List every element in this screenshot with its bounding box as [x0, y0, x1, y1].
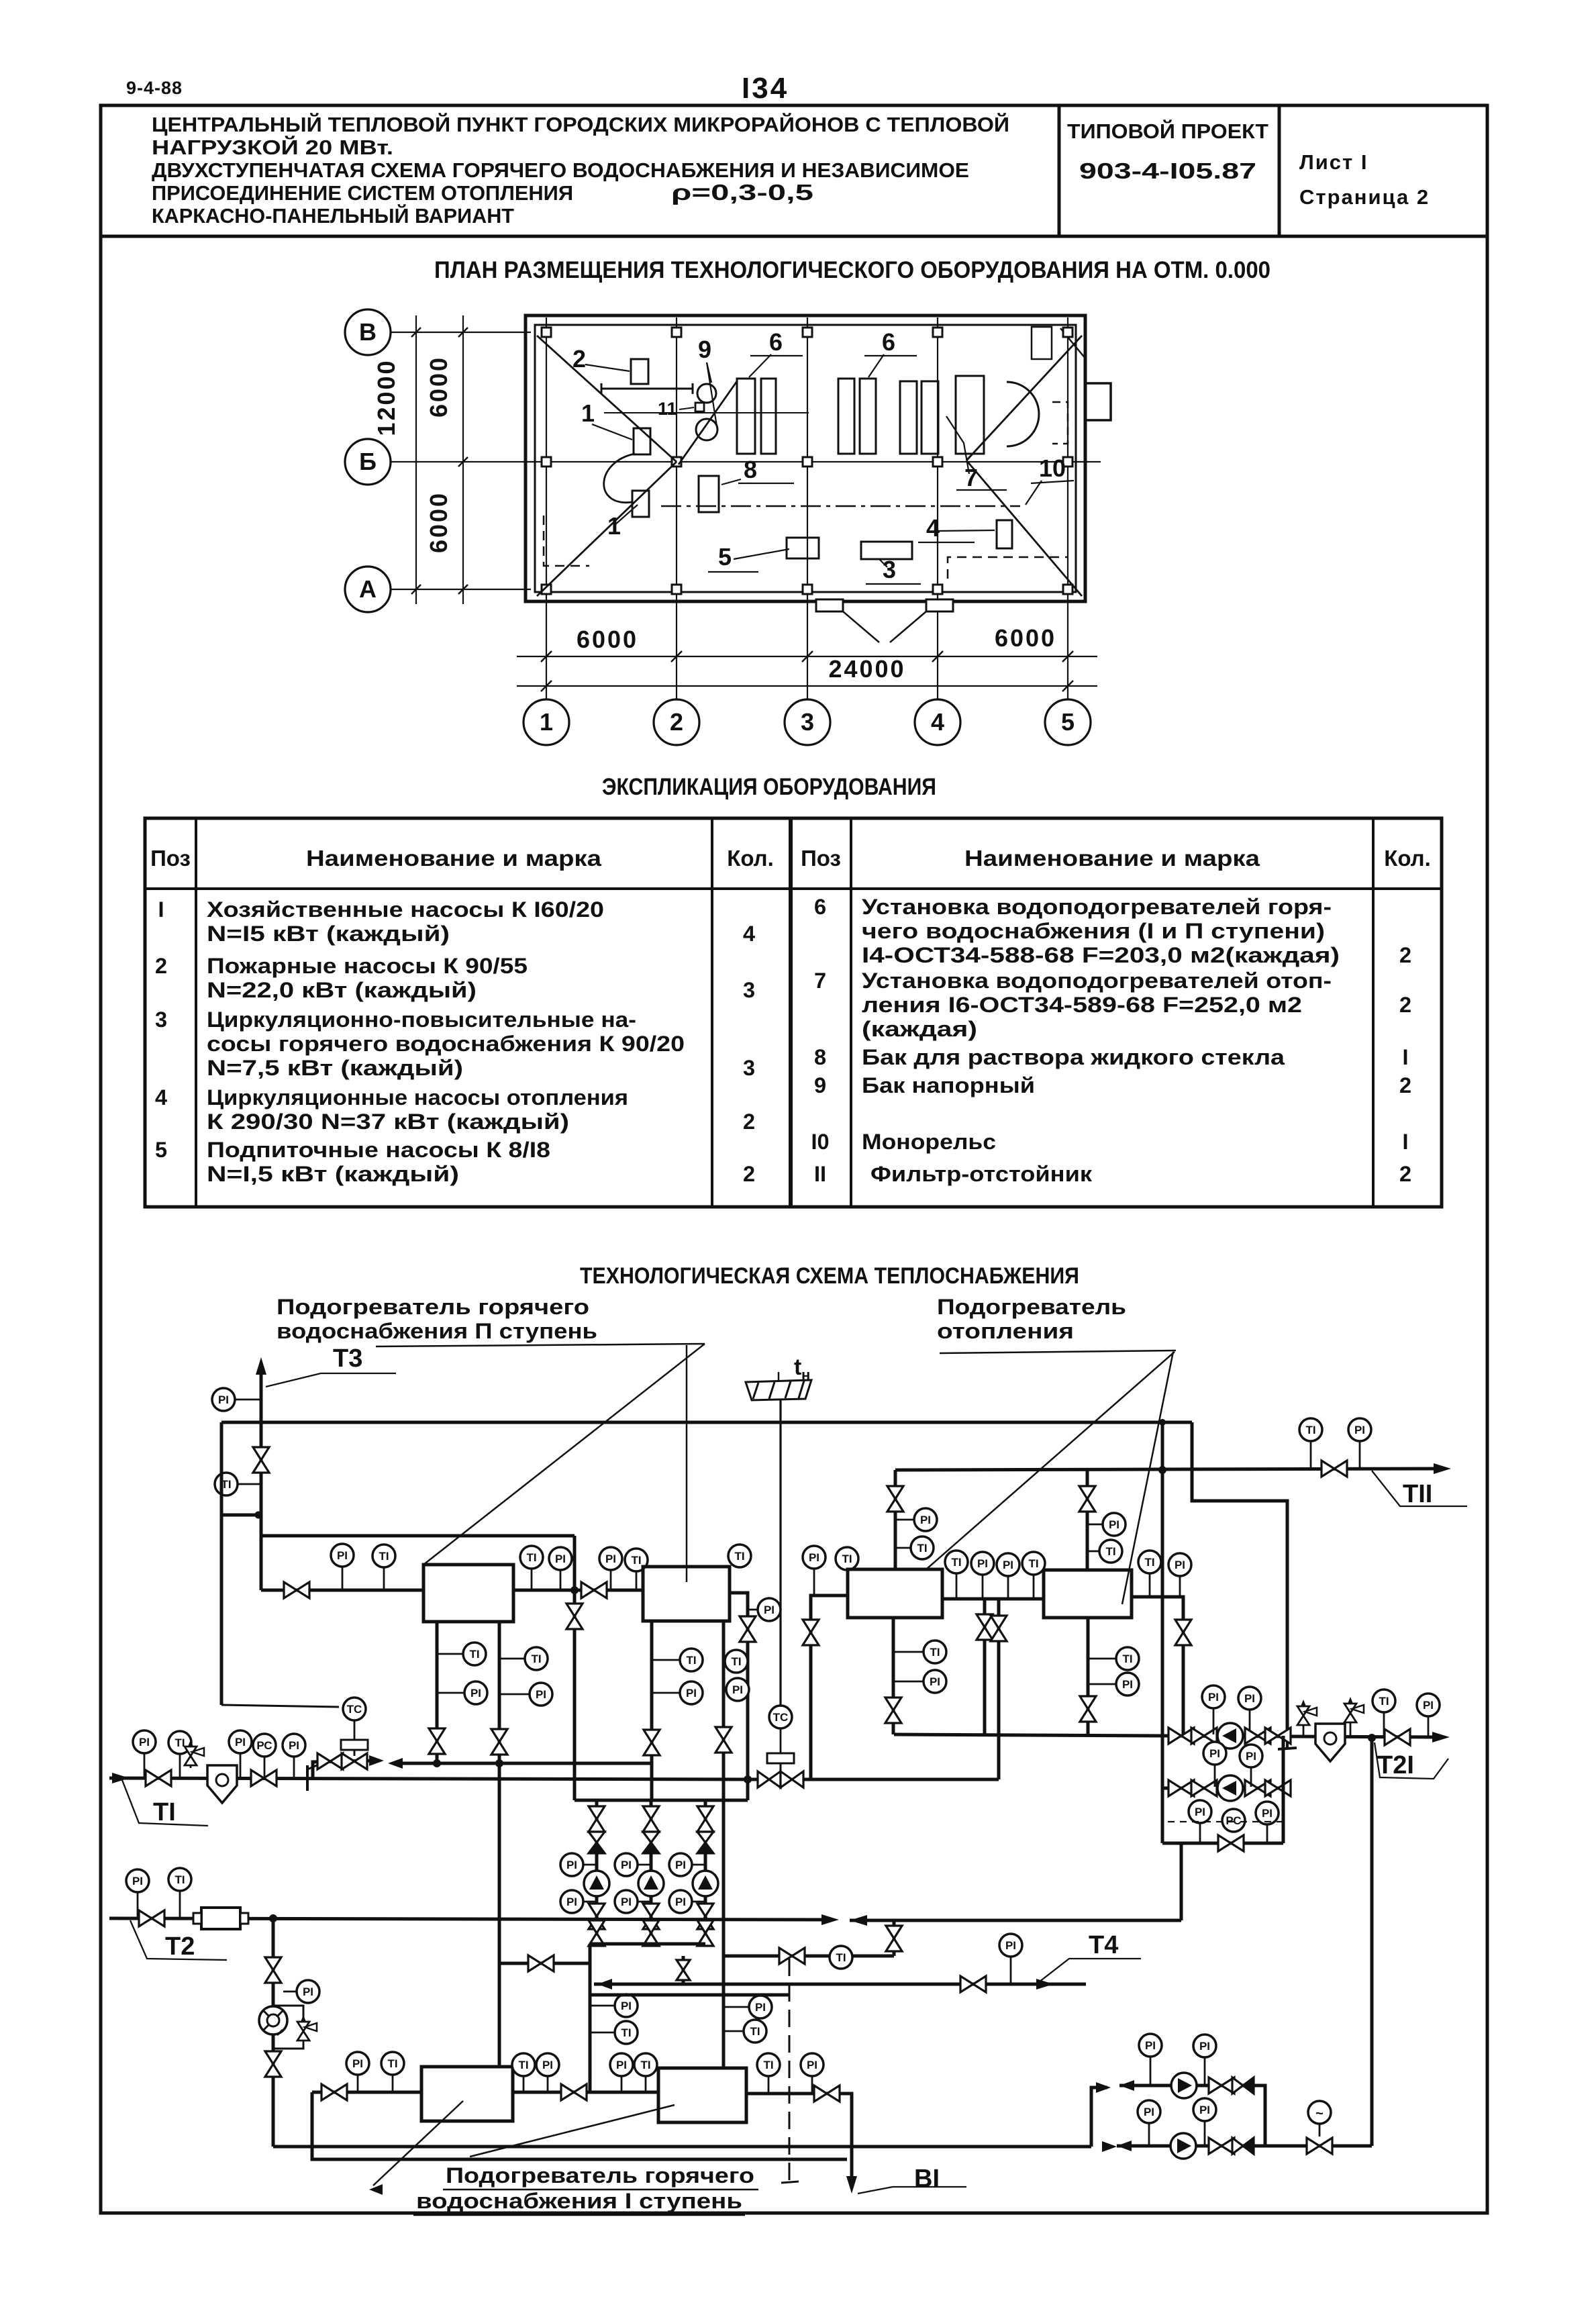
valve on make-up — [265, 1957, 281, 1983]
svg-text:ТІ: ТІ — [1305, 1424, 1315, 1436]
svg-text:10: 10 — [1039, 454, 1066, 482]
pipe discharge drop — [589, 1944, 592, 2092]
valve after box6 — [814, 2085, 840, 2102]
leader 10 — [1026, 481, 1042, 505]
svg-text:РІ: РІ — [566, 1859, 577, 1871]
svg-text:ПЛАН РАЗМЕЩЕНИЯ ТЕХНОЛОГИЧЕСКО: ПЛАН РАЗМЕЩЕНИЯ ТЕХНОЛОГИЧЕСКОГО ОБОРУДО… — [434, 257, 1270, 283]
pipe heating outlet manifold — [894, 1734, 1162, 1736]
svg-text:ВІ: ВІ — [914, 2165, 940, 2193]
instrument ТІ — [945, 1551, 968, 1573]
svg-text:ЭКСПЛИКАЦИЯ ОБОРУДОВАНИЯ: ЭКСПЛИКАЦИЯ ОБОРУДОВАНИЯ — [602, 774, 936, 800]
heat exchanger box3 heating — [848, 1569, 942, 1618]
leader 5 — [734, 549, 789, 559]
pipe box1 to box2 — [513, 1589, 643, 1592]
safety valve make-up — [303, 2020, 305, 2043]
svg-text:ЦЕНТРАЛЬНЫЙ ТЕПЛОВОЙ ПУНКТ ГОР: ЦЕНТРАЛЬНЫЙ ТЕПЛОВОЙ ПУНКТ ГОРОДСКИХ МИК… — [152, 112, 1009, 136]
svg-text:24000: 24000 — [828, 655, 905, 683]
underline hx stage II — [376, 1344, 705, 1346]
valve cwp1 — [1209, 2077, 1234, 2094]
underline hx stage I line1 — [443, 2189, 758, 2191]
valve pump2 discharge 2 — [643, 1920, 659, 1946]
svg-text:6000: 6000 — [577, 626, 638, 653]
equipment 7 hx heating — [900, 381, 917, 454]
instrument ТІ — [525, 1647, 548, 1670]
svg-text:6: 6 — [814, 895, 826, 919]
leader 8 — [721, 479, 741, 485]
heat exchanger box2 stage II — [643, 1567, 730, 1621]
svg-text:N=І,5 кВт (каждый): N=І,5 кВт (каждый) — [207, 1162, 459, 1186]
svg-text:водоснабжения І ступень: водоснабжения І ступень — [416, 2189, 742, 2213]
filter 11 — [695, 403, 704, 411]
check cwp1 — [1232, 2077, 1243, 2094]
instrument РІ — [1238, 1687, 1261, 1710]
bypass arrow — [369, 1755, 384, 1766]
svg-text:Лист І: Лист І — [1299, 150, 1368, 174]
svg-text:Б: Б — [359, 448, 377, 475]
pipe bypass H3 — [261, 1534, 575, 1538]
svg-text:Циркуляционно-повысительные на: Циркуляционно-повысительные на- — [207, 1008, 636, 1032]
instrument ТІ — [615, 2021, 638, 2044]
valve on box2 outlet — [740, 1616, 756, 1642]
svg-text:ТІ: ТІ — [518, 2059, 528, 2071]
dim tick — [541, 681, 552, 691]
dashed break line — [789, 1959, 791, 2183]
svg-text:РІ: РІ — [566, 1896, 577, 1908]
PC dashed signal — [1168, 1821, 1286, 1822]
equipment 1 pump upper — [634, 428, 650, 454]
svg-text:ТІ: ТІ — [531, 1653, 541, 1665]
leader hx II to box1 — [423, 1344, 705, 1565]
monorail axis 10 — [661, 505, 1020, 507]
instrument РІ — [346, 2052, 369, 2075]
valve on T1 2 — [251, 1770, 277, 1786]
pipe connector x1018 — [682, 1956, 685, 1984]
valve pump3 discharge 2 — [697, 1920, 713, 1946]
column — [542, 457, 551, 467]
svg-text:РІ: РІ — [337, 1549, 348, 1562]
svg-text:6: 6 — [769, 328, 783, 356]
pipe box2 left leg — [650, 1621, 654, 1800]
instrument РІ — [297, 1980, 319, 2003]
valve box1 right leg — [491, 1729, 507, 1755]
axis В circle — [345, 309, 391, 355]
instrument РІ — [1240, 1745, 1262, 1767]
instrument РІ — [1139, 2034, 1162, 2057]
svg-text:Наименование и марка: Наименование и марка — [306, 846, 602, 871]
svg-text:ТІ: ТІ — [153, 1798, 176, 1826]
svg-text:ТС: ТС — [347, 1703, 362, 1716]
table column line — [711, 818, 713, 1207]
equipment 4 — [997, 520, 1012, 548]
valve T21 exit — [1385, 1729, 1410, 1745]
axis В line — [391, 332, 531, 333]
leader hx I to box5 — [373, 2101, 463, 2186]
svg-text:ТІ: ТІ — [631, 1554, 641, 1567]
pipe T3 riser — [260, 1365, 263, 1590]
leader 3 — [879, 559, 887, 567]
valve between box1 box2 — [581, 1582, 607, 1598]
leader B1 — [858, 2187, 966, 2194]
valve x1018 — [677, 1960, 690, 1980]
pipe box1 left leg — [436, 1622, 439, 1763]
leader 1 lower — [615, 505, 638, 525]
tank semicircle — [1007, 382, 1039, 446]
svg-text:ТІ: ТІ — [951, 1556, 961, 1569]
table frame — [145, 818, 1442, 1207]
pipe box4 right connect — [1132, 1597, 1183, 1736]
pump arc — [604, 454, 635, 503]
valve on T1 — [146, 1770, 171, 1786]
instrument РІ — [758, 1598, 781, 1621]
underline heating heater — [940, 1351, 1176, 1353]
pipe heating supply after control valve — [803, 1778, 999, 1781]
instrument РІ — [971, 1552, 994, 1575]
brace diagonal left lower — [537, 462, 677, 596]
pipe cross connect y2925 — [501, 1962, 590, 1965]
leader 2 — [585, 364, 630, 371]
instrument РС — [253, 1734, 276, 1757]
svg-text:ТІ: ТІ — [731, 1655, 741, 1668]
svg-text:Наименование и марка: Наименование и марка — [964, 846, 1260, 871]
svg-text:~: ~ — [1315, 2106, 1324, 2121]
svg-text:2: 2 — [572, 345, 586, 373]
svg-text:ТІ: ТІ — [1144, 1556, 1154, 1569]
column — [672, 328, 681, 337]
pipe heating feed riser A — [983, 1599, 987, 1734]
svg-text:Фильтр-отстойник: Фильтр-отстойник — [870, 1162, 1093, 1186]
instrument РІ — [126, 1869, 149, 1892]
instrument PI pump3 out — [669, 1890, 692, 1913]
dashed line right — [948, 557, 1068, 579]
instrument РС — [1222, 1809, 1245, 1832]
valve cw exit — [1307, 2138, 1332, 2154]
column — [803, 457, 812, 467]
svg-text:РІ: РІ — [675, 1896, 686, 1908]
grid line 5 — [1067, 317, 1068, 699]
instrument ТІ — [924, 1640, 946, 1663]
pipe pump bypass — [1162, 1842, 1283, 1845]
svg-text:4: 4 — [743, 922, 755, 946]
relief valve T1 — [190, 1745, 192, 1768]
svg-text:РІ: РІ — [621, 1896, 632, 1908]
svg-text:РІ: РІ — [807, 2059, 817, 2071]
title block divider 1 — [1058, 105, 1061, 236]
vent valve 1 — [1303, 1705, 1305, 1728]
svg-text:Установка водоподогревателей г: Установка водоподогревателей горя- — [862, 895, 1332, 919]
svg-text:ТІ: ТІ — [526, 1551, 536, 1564]
pipe line A bottom — [273, 2145, 1091, 2149]
instrument РІ — [1168, 1553, 1191, 1576]
T21 exit arrow — [1432, 1732, 1450, 1742]
valve on H3 drop — [566, 1604, 583, 1629]
leader T2 — [130, 1920, 227, 1960]
instrument РІ — [229, 1730, 252, 1753]
svg-text:ТІ: ТІ — [1028, 1557, 1038, 1570]
dim tick — [458, 328, 468, 337]
heating pump 2 — [1217, 1775, 1243, 1801]
dim tick — [541, 651, 552, 662]
equipment 6 hx group2 — [838, 379, 854, 454]
svg-text:N=І5 кВт (каждый): N=І5 кВт (каждый) — [207, 922, 450, 946]
pipe pump discharge header — [590, 1943, 705, 1946]
instrument PI pump1 out — [560, 1890, 583, 1913]
pipe heating feed riser B — [997, 1599, 1001, 1779]
T1 entry arrow — [112, 1773, 130, 1783]
instrument РІ — [530, 1683, 552, 1706]
svg-text:К 290/30 N=37 кВт (каждый): К 290/30 N=37 кВт (каждый) — [207, 1110, 569, 1134]
equipment 8 tank — [699, 476, 719, 512]
svg-text:РІ: РІ — [1144, 2106, 1154, 2118]
pipe box4 bottom leg — [1087, 1618, 1090, 1735]
svg-text:8: 8 — [744, 456, 757, 483]
svg-text:ТІ: ТІ — [1105, 1545, 1115, 1558]
instrument ТІ — [728, 1544, 751, 1567]
svg-text:ІІ: ІІ — [814, 1162, 826, 1186]
dim tick — [458, 457, 468, 467]
instrument ТІ — [725, 1650, 748, 1673]
instrument РІ — [133, 1730, 156, 1753]
valve pump2 discharge — [643, 1904, 659, 1929]
pipe box2 outlet — [730, 1593, 748, 1800]
svg-text:8: 8 — [814, 1045, 826, 1069]
pipe box6 outlet — [746, 2094, 852, 2184]
instrument РІ — [680, 1681, 703, 1704]
svg-text:Подогреватель: Подогреватель — [937, 1295, 1126, 1319]
svg-text:ления І6-ОСТ34-589-68 F=252,0: ления І6-ОСТ34-589-68 F=252,0 м2 — [862, 993, 1302, 1017]
heat exchanger box5 stage I — [421, 2067, 513, 2121]
svg-text:І0: І0 — [811, 1130, 829, 1154]
instrument ТІ — [911, 1536, 934, 1559]
instrument РІ — [549, 1547, 572, 1570]
connect arrow a — [1096, 2082, 1111, 2093]
tn sensor line — [779, 1400, 781, 1706]
instrument РІ — [1348, 1418, 1371, 1441]
instrument РІ — [726, 1678, 749, 1701]
instrument РІ — [997, 1553, 1019, 1576]
valve hp2 a — [1168, 1780, 1194, 1796]
grid circle 5 — [1045, 699, 1091, 745]
dim tick — [411, 585, 421, 594]
svg-text:РІ: РІ — [470, 1687, 481, 1700]
svg-text:РІ: РІ — [1209, 1747, 1220, 1760]
instrument РІ — [464, 1681, 487, 1704]
svg-text:12000: 12000 — [372, 358, 400, 436]
wire header to riser — [221, 1514, 258, 1517]
instrument РІ — [1193, 2034, 1216, 2057]
svg-text:5: 5 — [718, 543, 732, 571]
pipe T2 up to pumps — [1180, 1843, 1183, 1920]
equipment 2 fire pump — [631, 359, 648, 384]
valve on y2914 — [779, 1948, 805, 1964]
svg-text:РІ: РІ — [1208, 1691, 1219, 1704]
pipe x1918 end bar — [1286, 1736, 1289, 1748]
cw arrow 1 — [1119, 2080, 1134, 2091]
control valve heating a — [758, 1771, 781, 1787]
leader 4 — [938, 530, 995, 531]
svg-text:РІ: РІ — [1195, 1806, 1205, 1818]
brace diagonal left upper — [537, 336, 677, 462]
T11 exit arrow — [1434, 1463, 1451, 1474]
valve on box3 left drop — [803, 1620, 819, 1645]
pipe T11 supply — [895, 1469, 1443, 1470]
valve before box5 — [321, 2084, 347, 2100]
check cwp2 — [1232, 2138, 1243, 2154]
TC heating actuator — [767, 1753, 794, 1763]
svg-text:ДВУХСТУПЕНЧАТАЯ СХЕМА ГОРЯЧЕГО: ДВУХСТУПЕНЧАТАЯ СХЕМА ГОРЯЧЕГО ВОДОСНАБЖ… — [152, 158, 969, 182]
svg-text:3: 3 — [883, 556, 896, 583]
door opening left — [816, 599, 843, 611]
pressure regulator — [259, 2006, 287, 2034]
svg-text:Поз: Поз — [150, 846, 191, 871]
svg-text:6: 6 — [882, 328, 895, 356]
grid line 2 — [676, 317, 677, 699]
valve hp1 a — [1168, 1728, 1194, 1744]
svg-text:4: 4 — [155, 1085, 167, 1110]
T4 left arrow — [597, 1979, 612, 1990]
check valve pump3 — [697, 1832, 713, 1843]
svg-text:2: 2 — [1399, 1162, 1411, 1186]
svg-text:1: 1 — [607, 512, 621, 540]
door top-right swing — [1060, 328, 1086, 359]
instrument ТІ — [1373, 1689, 1395, 1712]
svg-text:ТІ: ТІ — [387, 2057, 397, 2070]
valve hp1 d — [1265, 1728, 1291, 1744]
door swing left — [843, 611, 879, 642]
valve hp2 c — [1245, 1780, 1270, 1796]
valve pump1 suction — [589, 1806, 605, 1832]
strainer T1 — [207, 1765, 237, 1803]
building inner wall — [535, 325, 1076, 592]
instrument РІ — [615, 1994, 638, 2017]
leader 7 — [946, 416, 969, 474]
instrument ТІ — [1116, 1647, 1139, 1670]
instrument ТІ — [1022, 1552, 1045, 1575]
instrument РІ — [924, 1670, 946, 1693]
column — [542, 328, 551, 337]
svg-text:Бак для раствора жидкого стекл: Бак для раствора жидкого стекла — [862, 1045, 1285, 1069]
valve hp1 b — [1191, 1728, 1217, 1744]
pipe pump suction manifold — [575, 1799, 748, 1802]
svg-text:РІ: РІ — [686, 1687, 697, 1700]
pipe H3 drop — [573, 1536, 577, 1800]
valve on riser B — [991, 1616, 1007, 1641]
leader 6 first — [749, 354, 771, 377]
svg-text:(каждая): (каждая) — [862, 1017, 977, 1041]
check valve pump2 — [643, 1832, 659, 1843]
instrument ТІ — [744, 2020, 766, 2043]
grid circle 3 — [785, 699, 830, 745]
instrument РІ — [1189, 1800, 1211, 1823]
pipe suction header — [397, 1762, 652, 1765]
svg-text:РІ: РІ — [555, 1553, 566, 1565]
instrument РІ — [599, 1547, 622, 1570]
svg-text:РІ: РІ — [218, 1393, 229, 1406]
instrument ТІ — [512, 2053, 535, 2076]
svg-text:РІ: РІ — [621, 2000, 632, 2012]
svg-text:РІ: РІ — [675, 1859, 686, 1871]
valve hp2 d — [1265, 1780, 1291, 1796]
svg-text:ПРИСОЕДИНЕНИЕ СИСТЕМ ОТОПЛЕНИЯ: ПРИСОЕДИНЕНИЕ СИСТЕМ ОТОПЛЕНИЯ — [152, 181, 573, 205]
svg-text:РІ: РІ — [1199, 2104, 1210, 2116]
svg-text:6000: 6000 — [425, 491, 452, 553]
svg-text:3: 3 — [155, 1008, 167, 1032]
column — [1063, 585, 1073, 594]
axis Б line — [391, 461, 1101, 462]
leader 1 upper — [592, 424, 632, 440]
svg-text:Т2: Т2 — [165, 1932, 195, 1961]
leader T1 — [122, 1780, 208, 1826]
valve box2 left leg — [644, 1730, 660, 1755]
svg-text:N=7,5 кВт (каждый): N=7,5 кВт (каждый) — [207, 1056, 463, 1080]
instrument ТІ — [1099, 1540, 1122, 1563]
valve hp2 b — [1191, 1780, 1217, 1796]
table column line — [789, 818, 793, 1207]
T2 mid arrow — [821, 1914, 839, 1925]
svg-text:А: А — [359, 575, 377, 603]
title block divider 2 — [1278, 105, 1281, 236]
controller TC heating — [769, 1706, 792, 1728]
instrument РІ — [749, 1996, 772, 2018]
instrument ТІ — [634, 2053, 657, 2076]
drawing frame — [101, 105, 1487, 2213]
instrument РІ — [801, 2053, 824, 2076]
building outer wall — [526, 315, 1085, 601]
svg-text:РІ: РІ — [1199, 2040, 1210, 2053]
axis Б circle — [345, 439, 391, 485]
suction header arrow — [388, 1758, 403, 1769]
leader T4 — [1036, 1959, 1141, 1984]
svg-text:І: І — [1402, 1045, 1408, 1069]
svg-text:ТІ: ТІ — [1122, 1653, 1132, 1665]
strainer T21 — [1315, 1724, 1345, 1761]
svg-text:ТІ: ТІ — [174, 1873, 185, 1886]
grid line 3 — [807, 317, 808, 699]
pipe box1 right leg — [498, 1622, 501, 2067]
pipe T2 line continue — [850, 1919, 1181, 1922]
svg-text:РІ: РІ — [289, 1739, 299, 1752]
pipe regulator bypass — [273, 2006, 303, 2019]
pump 1 hot water — [584, 1871, 609, 1896]
grid circle 2 — [654, 699, 699, 745]
equipment 1 pump lower — [632, 491, 649, 517]
valve on T11 line — [1321, 1461, 1347, 1477]
instrument ТІ — [836, 1547, 858, 1570]
valve on box4 right drop — [1175, 1620, 1191, 1645]
instrument РІ — [212, 1388, 235, 1411]
instrument РІ — [1138, 2100, 1160, 2123]
svg-text:РІ: РІ — [542, 2059, 553, 2071]
svg-text:2: 2 — [743, 1162, 755, 1186]
svg-text:1: 1 — [581, 399, 595, 427]
svg-text:2: 2 — [155, 954, 167, 978]
valve on T4 — [960, 1976, 986, 1992]
svg-text:РС: РС — [256, 1739, 272, 1752]
cold water pump 2 — [1170, 2133, 1196, 2159]
pipe heating pump line 1 — [1162, 1736, 1442, 1737]
instrument ТІ — [520, 1546, 543, 1569]
svg-text:ТІ: ТІ — [842, 1553, 852, 1565]
grid circle 4 — [915, 699, 960, 745]
pipe box2 right leg — [722, 1621, 726, 2068]
instrument РІ — [1203, 1742, 1226, 1765]
svg-text:РІ: РІ — [1423, 1699, 1434, 1712]
vestibule top wall — [1032, 327, 1052, 359]
pipe header L1 — [221, 1421, 1192, 1424]
svg-text:КАРКАСНО-ПАНЕЛЬНЫЙ ВАРИАНТ: КАРКАСНО-ПАНЕЛЬНЫЙ ВАРИАНТ — [152, 203, 514, 228]
svg-text:ТІ: ТІ — [734, 1550, 744, 1563]
svg-text:Подогреватель горячего: Подогреватель горячего — [446, 2163, 754, 2188]
pipe V2 into box4 — [1086, 1470, 1089, 1570]
